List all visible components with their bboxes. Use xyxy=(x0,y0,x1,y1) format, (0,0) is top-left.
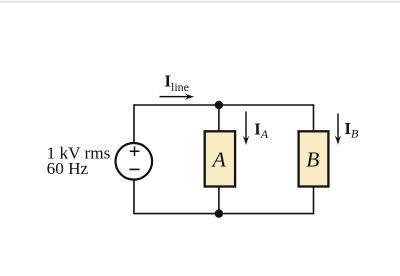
label IA xyxy=(254,120,269,141)
current arrow Iline xyxy=(160,93,195,100)
wire branch A upper xyxy=(218,105,220,132)
svg-text:B: B xyxy=(351,127,359,141)
page top rule xyxy=(0,1,400,2)
svg-text:I: I xyxy=(254,120,260,139)
current arrow IB xyxy=(335,114,342,145)
node bottom junction xyxy=(215,209,223,217)
label IB xyxy=(345,119,360,140)
svg-text:line: line xyxy=(171,80,189,94)
svg-text:B: B xyxy=(306,147,319,171)
wire bottom bus xyxy=(134,213,314,215)
label Iline xyxy=(165,72,190,94)
svg-text:I: I xyxy=(345,119,351,138)
svg-text:A: A xyxy=(260,127,269,141)
svg-text:60 Hz: 60 Hz xyxy=(47,159,89,178)
wire left vertical upper xyxy=(133,104,135,143)
wire right vertical lower xyxy=(313,186,315,214)
svg-text:I: I xyxy=(165,72,171,91)
wire branch A lower xyxy=(218,186,220,214)
source value label xyxy=(47,143,111,178)
node top junction xyxy=(215,101,223,109)
ac source 1 kV rms 60 Hz xyxy=(116,143,153,180)
load A xyxy=(205,131,235,186)
wire right vertical upper xyxy=(313,104,315,132)
svg-text:A: A xyxy=(211,147,227,171)
wire top bus xyxy=(134,104,314,106)
current arrow IA xyxy=(243,112,250,146)
load B xyxy=(299,131,329,186)
wire left vertical lower xyxy=(133,180,135,215)
